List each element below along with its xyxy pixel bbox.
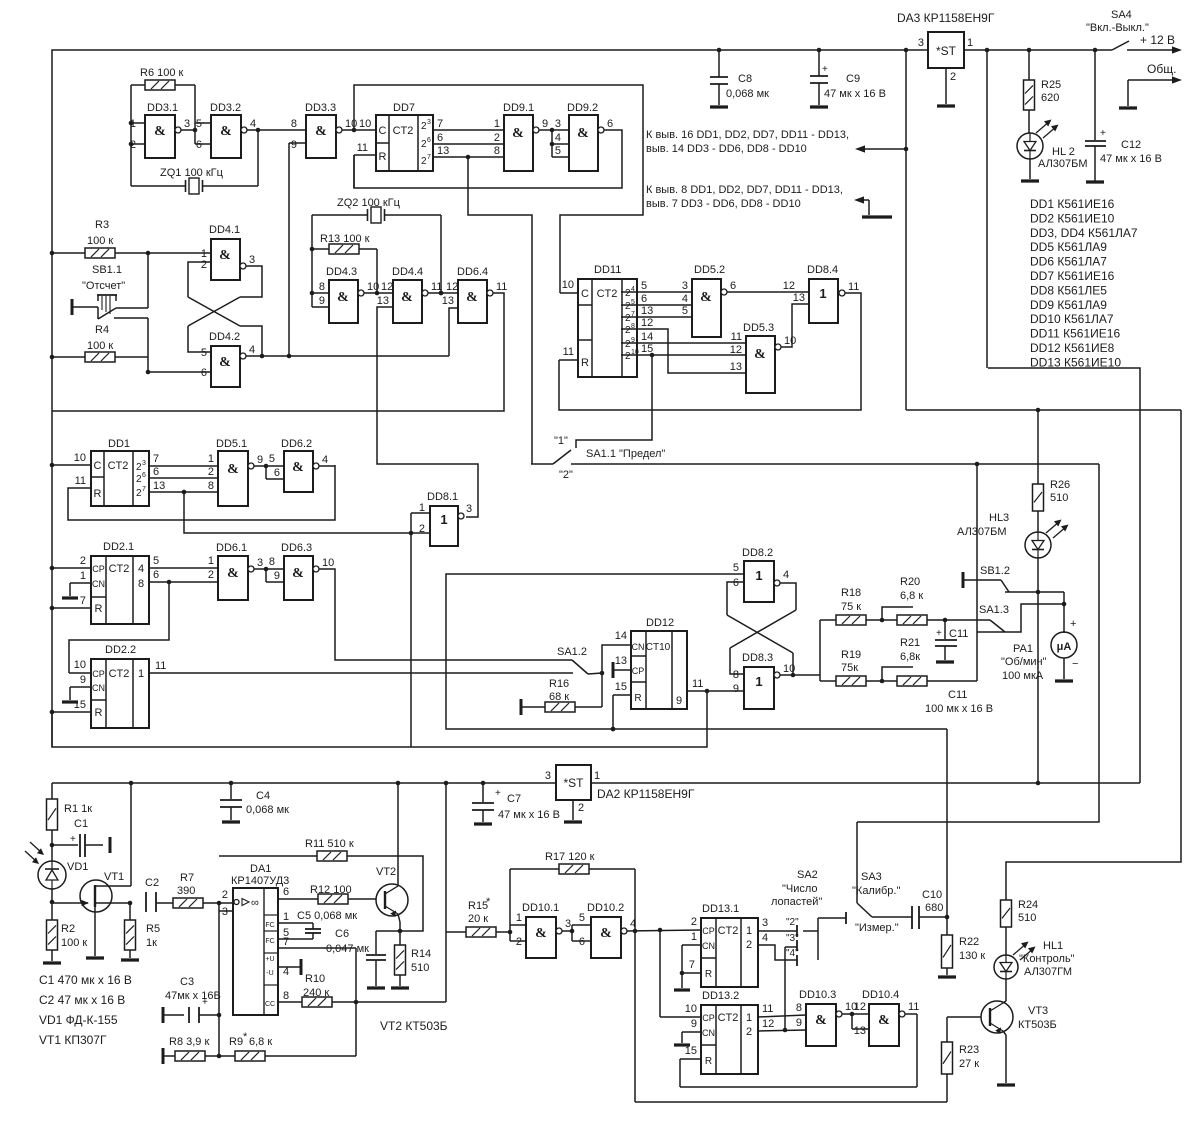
capacitor C5: [278, 910, 357, 939]
wire DD3.2 out to DD3.3 pin8: [247, 128, 306, 133]
svg-text:8: 8: [319, 281, 325, 293]
svg-text:АЛ307БМ: АЛ307БМ: [957, 526, 1007, 538]
svg-text:1: 1: [691, 931, 697, 943]
wire DD1-13 branch to DD8.1: [184, 492, 411, 533]
gate DD5.1: [216, 438, 263, 506]
svg-text:9: 9: [319, 295, 325, 307]
wire R23 top to VT3 base: [947, 1017, 981, 1042]
LED HL2: [1017, 120, 1088, 171]
wire DD6.3 out to SA1.2 upper contact: [319, 569, 572, 660]
svg-text:DD3.3: DD3.3: [305, 102, 336, 114]
svg-text:2: 2: [201, 259, 207, 271]
svg-text:2: 2: [746, 939, 752, 951]
wire VT3 collector to HL1: [1003, 979, 1006, 1003]
microammeter PA1: [1001, 618, 1078, 682]
svg-text:11: 11: [563, 346, 574, 358]
svg-text:+: +: [1100, 128, 1106, 139]
svg-text:"Измер.": "Измер.": [855, 922, 899, 934]
svg-text:1: 1: [208, 555, 214, 567]
switch SA1.2: [557, 646, 604, 675]
gate DD8.2: [733, 547, 789, 602]
gate DD8.4: [807, 264, 859, 323]
svg-text:5: 5: [682, 305, 688, 317]
svg-text:*ST: *ST: [563, 776, 584, 790]
gate DD4.4: [377, 266, 443, 323]
wire DD9.2 out feedback to DD7 R: [354, 130, 622, 188]
svg-text:HL3: HL3: [989, 512, 1009, 524]
svg-text:3: 3: [918, 37, 924, 49]
svg-text:VT1: VT1: [104, 871, 124, 883]
svg-text:&: &: [535, 926, 547, 941]
svg-text:13: 13: [854, 1025, 866, 1037]
wire DD2.1 out6 branch to DD2.2 CP: [69, 582, 169, 673]
svg-text:8: 8: [796, 1002, 802, 1014]
svg-text:CT2: CT2: [718, 1012, 739, 1024]
svg-text:12: 12: [783, 280, 795, 292]
ground C7: [474, 822, 492, 825]
svg-text:CN: CN: [702, 1028, 715, 1038]
svg-text:1: 1: [746, 1012, 752, 1024]
svg-text:DD9.1: DD9.1: [503, 102, 534, 114]
svg-text:&: &: [315, 124, 327, 139]
resistor R24: [1001, 899, 1039, 927]
capacitor C9: [810, 50, 886, 105]
svg-text:R: R: [379, 151, 387, 163]
svg-text:DD11 К561ИЕ16: DD11 К561ИЕ16: [1030, 327, 1120, 341]
resistor R9: [229, 1031, 272, 1061]
svg-text:2: 2: [516, 936, 522, 948]
wire R17 loop: [510, 869, 637, 933]
wire R21 to SA1.3 contact: [927, 464, 1004, 681]
svg-text:CP: CP: [702, 926, 715, 936]
wire DD11 R loop from DD8.4: [559, 293, 861, 410]
svg-text:−: −: [1072, 658, 1078, 670]
svg-text:&: &: [227, 462, 239, 477]
svg-text:C12: C12: [1121, 139, 1141, 151]
wire DD1 out6 to DD5.1 pin2: [149, 466, 218, 478]
svg-text:7: 7: [437, 118, 443, 130]
svg-text:6: 6: [607, 118, 613, 130]
svg-text:ZQ1 100 кГц: ZQ1 100 кГц: [160, 167, 224, 179]
svg-text:5: 5: [641, 280, 647, 292]
svg-text:1: 1: [819, 286, 826, 301]
wire R9 to node riser: [265, 1055, 356, 1057]
svg-text:DD6.4: DD6.4: [457, 266, 488, 278]
svg-text:"2": "2": [559, 469, 573, 481]
svg-text:R12 100: R12 100: [310, 884, 352, 896]
text power note Vdd: [646, 129, 849, 155]
svg-text:68 к: 68 к: [549, 691, 569, 703]
svg-text:11: 11: [357, 142, 368, 154]
svg-text:510: 510: [1018, 912, 1036, 924]
svg-text:6: 6: [142, 472, 146, 479]
svg-text:9: 9: [274, 570, 280, 582]
svg-text:DD7: DD7: [393, 102, 415, 114]
gate DD8.1: [419, 491, 472, 546]
svg-text:SA1.3: SA1.3: [979, 604, 1009, 616]
svg-text:"3": "3": [786, 933, 799, 944]
svg-text:DD5.2: DD5.2: [694, 264, 725, 276]
svg-text:CN: CN: [632, 642, 645, 652]
wire DD3.3 pin9 from DD4.2 output: [289, 143, 306, 356]
svg-text:2: 2: [208, 569, 214, 581]
wire DD8.2 out cross to DD8.3 pin8: [730, 583, 796, 674]
resistor R8: [163, 1036, 209, 1064]
wire DD10.3 out to DD10.4: [842, 1001, 869, 1037]
svg-text:выв. 7 DD3 - DD6, DD8 - DD10: выв. 7 DD3 - DD6, DD8 - DD10: [646, 198, 801, 210]
wire DA1 pin8 to R10: [278, 1001, 302, 1003]
svg-text:R: R: [95, 603, 103, 615]
wire DD7 out6 to DD9.1 pin2: [433, 132, 504, 144]
svg-text:9: 9: [542, 118, 548, 130]
svg-text:R9: R9: [229, 1036, 243, 1048]
svg-text:CP: CP: [632, 666, 645, 676]
wire DD11 out14 to DD5.3 pin11: [621, 331, 746, 343]
svg-text:8: 8: [291, 118, 297, 130]
svg-text:75 к: 75 к: [841, 601, 861, 613]
wire DD2.1 CN stub: [62, 570, 91, 598]
wire DD7 out13 to DD9.1 pin8: [433, 145, 504, 159]
wire +12V top rail: [52, 50, 928, 253]
svg-text:1: 1: [440, 512, 447, 527]
svg-text:VT2: VT2: [376, 866, 396, 878]
svg-text:+: +: [495, 788, 501, 799]
resistor R25: [1024, 50, 1062, 133]
resistor R2: [47, 920, 88, 950]
resistor R5: [125, 903, 161, 950]
svg-text:CP: CP: [92, 564, 105, 574]
svg-text:4: 4: [630, 918, 636, 930]
svg-text:&: &: [219, 248, 231, 263]
svg-text:SA3: SA3: [861, 871, 882, 883]
wire R19 to R21: [866, 667, 913, 683]
wire DD13.1 out4 to SA2 contact 4: [758, 932, 797, 966]
svg-text:R5: R5: [146, 923, 160, 935]
svg-text:9: 9: [676, 695, 682, 707]
gate DD8.3: [733, 652, 795, 709]
svg-text:-U: -U: [266, 970, 273, 977]
svg-text:130 к: 130 к: [959, 950, 985, 962]
wire SA1.3 to PA1 node: [1004, 602, 1066, 632]
wire SA1.2 common to R16: [601, 673, 603, 707]
svg-text:DD8.2: DD8.2: [742, 547, 773, 559]
wire R1 to VD1: [51, 830, 53, 861]
wire DD7-13 branch down to y215: [468, 157, 532, 464]
wire DA2 pin2 ground: [564, 800, 582, 822]
svg-text:C3: C3: [180, 976, 194, 988]
wire DD8.1 inputs tied: [409, 513, 430, 535]
wire DD6.1 out to DD6.3: [254, 556, 284, 582]
text power note Vss: [646, 184, 843, 210]
wire R8 to R9: [205, 1054, 235, 1059]
ground C11: [936, 660, 954, 663]
svg-text:C9: C9: [846, 73, 860, 85]
svg-text:&: &: [577, 126, 589, 141]
ground R14: [391, 975, 409, 988]
wire DD8.2 pin5 from C10 net: [446, 574, 947, 731]
counter DD2.1: [91, 541, 149, 624]
svg-text:C1: C1: [74, 818, 88, 830]
svg-text:лопастей": лопастей": [771, 896, 822, 908]
ground PA1: [1055, 658, 1073, 681]
svg-text:+U: +U: [265, 956, 274, 963]
wire C10 node down to R22: [946, 729, 948, 917]
svg-text:12: 12: [641, 317, 653, 329]
resistor R6: [140, 67, 184, 90]
svg-text:SB1.1: SB1.1: [92, 264, 122, 276]
svg-text:HL 2: HL 2: [1052, 146, 1075, 158]
svg-text:0,068 мк: 0,068 мк: [246, 804, 289, 816]
svg-text:6: 6: [274, 467, 280, 479]
svg-text:DD6 К561ЛА7: DD6 К561ЛА7: [1030, 255, 1107, 269]
svg-text:10: 10: [685, 1003, 697, 1015]
svg-text:8: 8: [494, 145, 500, 157]
wire DD2.1 out6 to DD6.1 pin2: [149, 569, 218, 584]
svg-text:12: 12: [381, 281, 393, 293]
wire DD13.1 out3 to SA2 contact 2: [758, 917, 797, 937]
wire HL3 to SB1.2 line: [1036, 558, 1041, 594]
wire DD8.1 inputs to bottom frame: [410, 533, 412, 747]
svg-text:C4: C4: [256, 790, 270, 802]
gate DD6.4: [442, 266, 508, 323]
svg-text:&: &: [466, 290, 478, 305]
svg-text:DD12 К561ИЕ8: DD12 К561ИЕ8: [1030, 341, 1115, 355]
svg-text:DA2 КР1158ЕН9Г: DA2 КР1158ЕН9Г: [597, 787, 695, 801]
svg-text:1: 1: [494, 118, 500, 130]
svg-text:1к: 1к: [146, 937, 157, 949]
svg-text:11: 11: [908, 1001, 919, 1013]
wire R3 to DD4.1 pin1: [115, 251, 211, 256]
svg-text:1: 1: [130, 118, 136, 130]
svg-text:R16: R16: [549, 678, 569, 690]
svg-text:47 мк x 16 В: 47 мк x 16 В: [498, 809, 560, 821]
svg-text:11: 11: [731, 331, 742, 343]
svg-text:4: 4: [682, 293, 688, 305]
wire DD2.1 R input: [50, 595, 91, 610]
wire DD13.2 out12 to DD10.3 pin9: [758, 1017, 806, 1032]
counter DD13.2: [701, 990, 758, 1074]
svg-text:&: &: [154, 124, 166, 139]
wire DD1 out7 to DD5.1 pin1: [149, 453, 218, 466]
gate DD10.1: [522, 902, 571, 958]
resistor R20: [897, 576, 927, 625]
wire DD8.3 out cross to DD8.2 pin6: [727, 582, 795, 677]
wire DD8.3 out to R18 R19: [780, 620, 836, 681]
wire node to rail riser: [356, 783, 446, 1002]
svg-text:CT2: CT2: [109, 563, 130, 575]
svg-text:11: 11: [762, 1003, 773, 1015]
svg-text:CC: CC: [265, 1001, 275, 1008]
svg-text:11: 11: [496, 281, 507, 293]
svg-text:1: 1: [746, 925, 752, 937]
svg-text:SA1.2: SA1.2: [557, 646, 587, 658]
svg-text:"Калибр.": "Калибр.": [852, 885, 900, 897]
ground C4: [222, 820, 240, 823]
svg-text:2: 2: [80, 555, 86, 567]
svg-text:C5 0,068 мк: C5 0,068 мк: [297, 910, 357, 922]
wire SB1.1 contacts to R3 R4 junctions: [114, 253, 150, 374]
counter DD7: [376, 102, 433, 171]
svg-text:R: R: [705, 1056, 712, 1067]
svg-text:DD7 К561ИЕ16: DD7 К561ИЕ16: [1030, 269, 1115, 283]
svg-text:АЛ307БМ: АЛ307БМ: [1038, 158, 1088, 170]
svg-text:510: 510: [411, 962, 429, 974]
wire cascade to DD13.2 CP: [660, 930, 701, 1017]
wire DD2.2 CN stub: [62, 674, 91, 702]
svg-text:DD6.2: DD6.2: [281, 438, 312, 450]
gate DD5.2: [692, 264, 736, 337]
LED HL1: [994, 940, 1075, 979]
wire DD11 out5 to DD5.2 pin3: [621, 280, 692, 292]
voltage regulator DA3: [897, 11, 995, 83]
svg-text:620: 620: [1041, 92, 1059, 104]
svg-text:C2: C2: [145, 877, 159, 889]
resistor R21: [897, 637, 927, 686]
wire +12V branch down: [986, 50, 988, 368]
wire DD11 R input: [559, 346, 578, 360]
transistor VT2: [376, 866, 408, 917]
svg-text:3: 3: [184, 118, 190, 130]
wire DD10.1 out to DD10.2: [562, 912, 591, 948]
wire R15 to DD10.1 inputs: [496, 912, 526, 948]
svg-text:27 к: 27 к: [959, 1058, 979, 1070]
svg-text:Общ.: Общ.: [1147, 62, 1176, 76]
svg-text:R1 1к: R1 1к: [64, 803, 92, 815]
wire DD1 R loop: [68, 465, 335, 520]
capacitor C3: [163, 976, 221, 1023]
svg-text:6,8 к: 6,8 к: [900, 590, 923, 602]
svg-text:μA: μA: [1057, 641, 1072, 653]
svg-text:4: 4: [249, 344, 255, 356]
wire bottom frame to DD8.3 pin9: [52, 691, 707, 747]
resistor R23: [942, 1042, 980, 1074]
gate DD3.2: [196, 102, 256, 158]
svg-text:FC: FC: [265, 938, 274, 945]
svg-text:4: 4: [283, 966, 289, 978]
svg-text:CP: CP: [92, 669, 105, 679]
svg-text:1: 1: [967, 37, 973, 49]
resistor R22: [942, 917, 986, 968]
svg-text:8: 8: [733, 669, 739, 681]
svg-text:C: C: [379, 125, 387, 137]
svg-text:7: 7: [80, 595, 86, 607]
svg-text:2: 2: [950, 71, 956, 83]
wire DD3.1 out to DD3.2: [181, 129, 195, 131]
gate DD4.1: [201, 224, 255, 280]
svg-text:АЛ307ГМ: АЛ307ГМ: [1024, 966, 1072, 978]
svg-text:6: 6: [437, 132, 443, 144]
resistor R7: [173, 872, 203, 908]
svg-text:C11: C11: [948, 689, 967, 701]
wire VT3 emitter to ground: [997, 1031, 1015, 1085]
resistor R26: [1033, 410, 1071, 511]
wire R18 to R20: [866, 607, 913, 622]
svg-text:CT2: CT2: [718, 925, 739, 937]
svg-text:5: 5: [733, 562, 739, 574]
svg-text:DD9.2: DD9.2: [567, 102, 598, 114]
svg-text:*ST: *ST: [936, 44, 957, 58]
svg-text:12: 12: [854, 1001, 866, 1013]
wire SB1.2 node to PA1: [1063, 592, 1065, 633]
svg-text:4: 4: [762, 932, 768, 944]
svg-text:9: 9: [80, 674, 86, 686]
svg-text:10: 10: [74, 659, 86, 671]
svg-text:+ 12 В: + 12 В: [1140, 33, 1175, 47]
svg-text:К выв. 8 DD1, DD2, DD7, DD11 -: К выв. 8 DD1, DD2, DD7, DD11 - DD13,: [646, 184, 843, 196]
svg-text:К выв. 16 DD1, DD2, DD7, DD11: К выв. 16 DD1, DD2, DD7, DD11 - DD13,: [646, 129, 849, 141]
svg-text:DD10.2: DD10.2: [587, 902, 624, 914]
switch SA3: [852, 822, 912, 934]
wire DD4.3 inputs: [312, 293, 329, 307]
wire DA3 pin2 ground: [937, 68, 955, 106]
wire R6 left to DD3.1 inputs: [129, 85, 145, 186]
svg-text:2: 2: [578, 802, 584, 814]
wire DD11 out13 to DD5.2 pin5: [621, 305, 692, 317]
svg-text:3: 3: [427, 119, 431, 126]
svg-text:DD2.1: DD2.1: [103, 541, 134, 553]
svg-text:+: +: [822, 64, 828, 75]
resistor R19: [836, 649, 866, 686]
svg-text:2: 2: [691, 916, 697, 928]
svg-text:DD4.4: DD4.4: [392, 266, 423, 278]
svg-text:2: 2: [222, 889, 228, 901]
ground R2: [43, 950, 61, 963]
svg-text:DD13.1: DD13.1: [702, 903, 739, 915]
svg-text:C1 470 мк x 16 В: C1 470 мк x 16 В: [39, 973, 132, 987]
wire DA1 pin3 stub: [219, 902, 233, 1056]
terminal DD12 CP bar: [613, 655, 631, 678]
svg-text:+: +: [936, 628, 942, 639]
wire R24 to HL1: [1005, 927, 1007, 955]
svg-text:DD5 К561ЛА9: DD5 К561ЛА9: [1030, 240, 1107, 254]
svg-text:CT2: CT2: [109, 668, 130, 680]
svg-text:VD1 ФД-К-155: VD1 ФД-К-155: [39, 1013, 118, 1027]
svg-text:R24: R24: [1018, 899, 1038, 911]
svg-text:R10: R10: [305, 973, 325, 985]
gate DD10.3: [799, 989, 857, 1046]
svg-text:R22: R22: [959, 936, 979, 948]
resistor R12: [310, 884, 352, 904]
wire R24 feed: [1006, 410, 1181, 900]
svg-text:&: &: [754, 347, 766, 362]
wire Vss arrow with ground: [854, 196, 892, 217]
wire DD4.4 pin13 loop to DD8.1 output: [377, 307, 478, 517]
svg-text:&: &: [878, 1013, 890, 1028]
svg-text:5: 5: [201, 347, 207, 359]
svg-text:6: 6: [153, 569, 159, 581]
svg-text:+: +: [1070, 618, 1076, 630]
wire SB1.1 to DD4.2 pin6: [148, 371, 211, 373]
wire DD13.1 CN and R tied to common: [674, 931, 701, 990]
svg-text:&: &: [512, 126, 524, 141]
resistor R10: [302, 973, 332, 1007]
svg-text:DD1: DD1: [108, 438, 130, 450]
crystal ZQ2: [337, 197, 401, 223]
wire DD4.3 out to DD4.4 pin12: [364, 281, 393, 293]
svg-text:DD4.2: DD4.2: [209, 331, 240, 343]
svg-text:9: 9: [796, 1017, 802, 1029]
svg-text:1: 1: [755, 674, 762, 689]
wire DD4.4 out to DD6.4 pin12: [428, 281, 458, 295]
svg-text:11: 11: [155, 660, 166, 672]
svg-text:R7: R7: [180, 872, 194, 884]
svg-text:PA1: PA1: [1013, 643, 1033, 655]
wire R6 right to DD3.1 output: [175, 85, 211, 144]
svg-text:CN: CN: [92, 579, 105, 589]
svg-text:1: 1: [594, 770, 600, 782]
op-amp DA1: [222, 863, 289, 1015]
svg-text:DD2 К561ИЕ10: DD2 К561ИЕ10: [1030, 211, 1115, 225]
